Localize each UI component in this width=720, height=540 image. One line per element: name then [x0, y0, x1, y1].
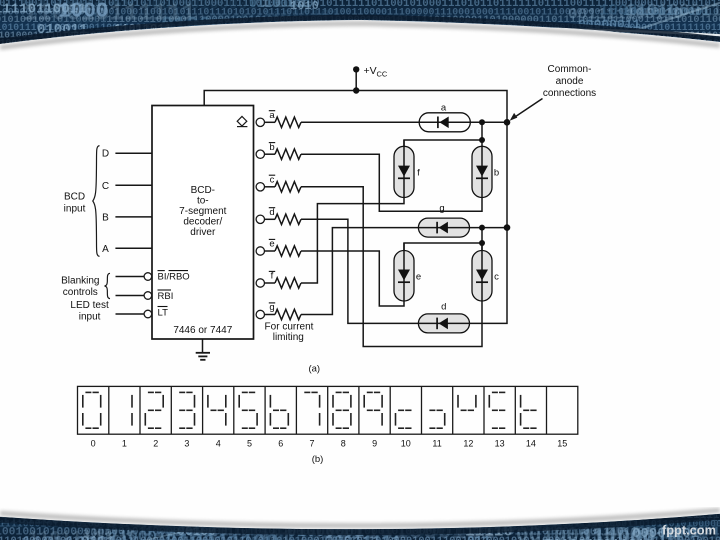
- svg-text:b: b: [494, 167, 499, 178]
- output bubble a: [256, 118, 264, 126]
- svg-text:CC: CC: [377, 70, 388, 79]
- decoder IC U1 7446/7447: [152, 106, 254, 340]
- digit chart frame: [78, 386, 578, 434]
- svg-text:2: 2: [153, 439, 158, 449]
- svg-text:7446 or 7447: 7446 or 7447: [173, 325, 232, 336]
- svg-text:input: input: [79, 312, 101, 323]
- node e-c anode junction: [479, 240, 485, 246]
- wire net e: [301, 243, 404, 306]
- 7-seg pattern 1: [131, 395, 133, 426]
- svg-text:connections: connections: [543, 88, 596, 99]
- LED segment d: [418, 314, 469, 333]
- output bubble c: [256, 183, 264, 191]
- output bubble g: [256, 310, 264, 318]
- 7-seg pattern 10: [396, 410, 412, 428]
- LED segment c: [472, 251, 492, 302]
- node g-row rail junction: [504, 224, 511, 231]
- resistor Rg: [275, 309, 301, 319]
- BCD input D: [115, 152, 152, 154]
- LED segment e: [394, 251, 414, 302]
- resistor Rb: [275, 149, 301, 159]
- svg-text:C: C: [102, 181, 109, 192]
- node a-row junction: [479, 119, 485, 125]
- wire net c: [301, 187, 482, 347]
- wire f-b anode tie: [404, 140, 482, 146]
- svg-text:LED test: LED test: [70, 300, 109, 311]
- 7-seg pattern 5: [239, 392, 257, 428]
- svg-text:BI/RBO: BI/RBO: [158, 272, 190, 283]
- wire output a to resistor: [265, 121, 276, 123]
- LED segment a: [419, 113, 470, 132]
- Vcc stem: [355, 69, 357, 90]
- wire net b: [301, 122, 482, 211]
- node a-row rail junction: [504, 119, 511, 126]
- 7-seg pattern 8: [333, 392, 351, 428]
- svg-text:11: 11: [432, 439, 441, 449]
- wire output g to resistor: [265, 314, 276, 316]
- svg-text:13: 13: [495, 439, 505, 449]
- svg-text:f: f: [417, 167, 420, 178]
- svg-text:fppt.com: fppt.com: [662, 523, 716, 538]
- output bubble e: [256, 247, 264, 255]
- svg-text:3: 3: [184, 439, 189, 449]
- svg-text:g: g: [439, 203, 444, 214]
- 7-seg pattern 4: [208, 395, 226, 426]
- svg-text:1000: 1000: [58, 1, 108, 24]
- svg-text:14: 14: [526, 439, 536, 449]
- 7-seg pattern 11: [429, 410, 444, 428]
- svg-text:Blanking: Blanking: [61, 276, 99, 287]
- wire net a: [301, 121, 507, 123]
- wire output f to resistor: [265, 282, 276, 284]
- svg-text:b: b: [269, 142, 274, 153]
- svg-text:7: 7: [309, 439, 314, 449]
- svg-text:4: 4: [216, 439, 221, 449]
- svg-text:9: 9: [372, 439, 377, 449]
- top binary banner: [0, 0, 720, 63]
- 7-seg pattern 2: [145, 392, 163, 428]
- svg-text:(b): (b): [312, 454, 324, 465]
- wire net d: [301, 219, 470, 323]
- resistor Ra: [275, 117, 301, 127]
- svg-text:limiting: limiting: [273, 332, 304, 343]
- bottom edge shadow: [0, 510, 720, 525]
- svg-text:d: d: [441, 301, 446, 312]
- svg-text:BCD-: BCD-: [191, 185, 215, 196]
- svg-text:a: a: [269, 110, 275, 121]
- svg-text:e: e: [269, 239, 274, 250]
- node Vcc terminal: [353, 66, 359, 72]
- svg-text:c: c: [270, 175, 275, 186]
- svg-text:controls: controls: [63, 287, 98, 298]
- resistor Re: [275, 246, 301, 256]
- bottom binary banner: [0, 497, 720, 540]
- svg-text:+V: +V: [364, 65, 377, 77]
- 7-seg pattern 7: [304, 392, 319, 425]
- svg-text:RBI: RBI: [158, 291, 174, 302]
- svg-text:driver: driver: [190, 227, 216, 238]
- svg-text:c: c: [494, 271, 499, 282]
- LED segment g: [418, 218, 469, 237]
- 7-seg pattern 13: [489, 392, 505, 428]
- 7-seg pattern 14: [521, 395, 537, 428]
- output bubble f: [256, 279, 264, 287]
- wire net f: [301, 140, 404, 283]
- arrow to common-anode node: [513, 99, 543, 119]
- ground: [196, 339, 210, 360]
- wire output b to resistor: [265, 153, 276, 155]
- resistor Rc: [275, 182, 301, 192]
- svg-text:a: a: [441, 102, 447, 113]
- svg-text:Common-: Common-: [548, 64, 592, 75]
- BCD input B: [115, 216, 152, 218]
- svg-text:7-segment: 7-segment: [179, 206, 226, 217]
- svg-text:decoder/: decoder/: [183, 217, 222, 228]
- svg-text:1: 1: [122, 439, 127, 449]
- svg-text:0: 0: [91, 439, 96, 449]
- svg-text:d: d: [269, 207, 274, 218]
- wire e-c anode tie: [404, 228, 482, 251]
- BCD input brace: [93, 146, 100, 257]
- wire net g: [301, 228, 507, 315]
- resistor Rf: [275, 278, 301, 288]
- node f-b anode junction: [479, 137, 485, 143]
- output bubble d: [256, 215, 264, 223]
- 7-seg pattern 9: [364, 392, 382, 425]
- BCD input C: [115, 184, 152, 186]
- svg-text:10: 10: [401, 439, 411, 449]
- svg-text:BCD: BCD: [64, 191, 85, 202]
- 7-seg pattern 0: [83, 392, 101, 428]
- svg-text:(a): (a): [308, 363, 320, 374]
- svg-text:e: e: [416, 271, 421, 282]
- top edge shadow: [0, 24, 720, 48]
- svg-text:D: D: [102, 149, 109, 160]
- svg-text:LT: LT: [158, 307, 169, 318]
- svg-text:B: B: [102, 212, 109, 223]
- LED segment b: [472, 146, 492, 197]
- +Vcc supply wire: [204, 91, 507, 324]
- 7-seg pattern 6: [270, 395, 288, 428]
- svg-text:g: g: [269, 302, 274, 313]
- open-collector symbol: [237, 116, 247, 126]
- svg-text:000110100001: 000110100001: [142, 0, 257, 14]
- svg-text:6: 6: [278, 439, 283, 449]
- wire output e to resistor: [265, 250, 276, 252]
- blanking input BI/RBO: [116, 276, 145, 278]
- svg-text:f: f: [271, 271, 274, 282]
- wire output d to resistor: [265, 218, 276, 220]
- 7-seg pattern 3: [179, 392, 194, 428]
- resistor Rd: [275, 214, 301, 224]
- node Vcc junction: [353, 87, 359, 93]
- output bubble b: [256, 150, 264, 158]
- 7-seg pattern 15: [0, 0, 1, 1]
- svg-text:5: 5: [247, 439, 252, 449]
- svg-text:input: input: [64, 203, 86, 214]
- LED test input LT: [116, 313, 145, 315]
- blanking brace: [105, 273, 110, 298]
- svg-text:12: 12: [463, 439, 473, 449]
- svg-text:anode: anode: [556, 76, 584, 87]
- svg-text:A: A: [102, 244, 109, 255]
- svg-text:15: 15: [557, 439, 567, 449]
- blanking input RBI: [116, 295, 145, 297]
- wire output c to resistor: [265, 186, 276, 188]
- svg-text:to-: to-: [197, 195, 209, 206]
- BCD input A: [115, 247, 152, 249]
- node g-row junction: [479, 225, 485, 231]
- 7-seg pattern 12: [458, 395, 476, 410]
- svg-text:8: 8: [341, 439, 346, 449]
- LED segment f: [394, 146, 414, 197]
